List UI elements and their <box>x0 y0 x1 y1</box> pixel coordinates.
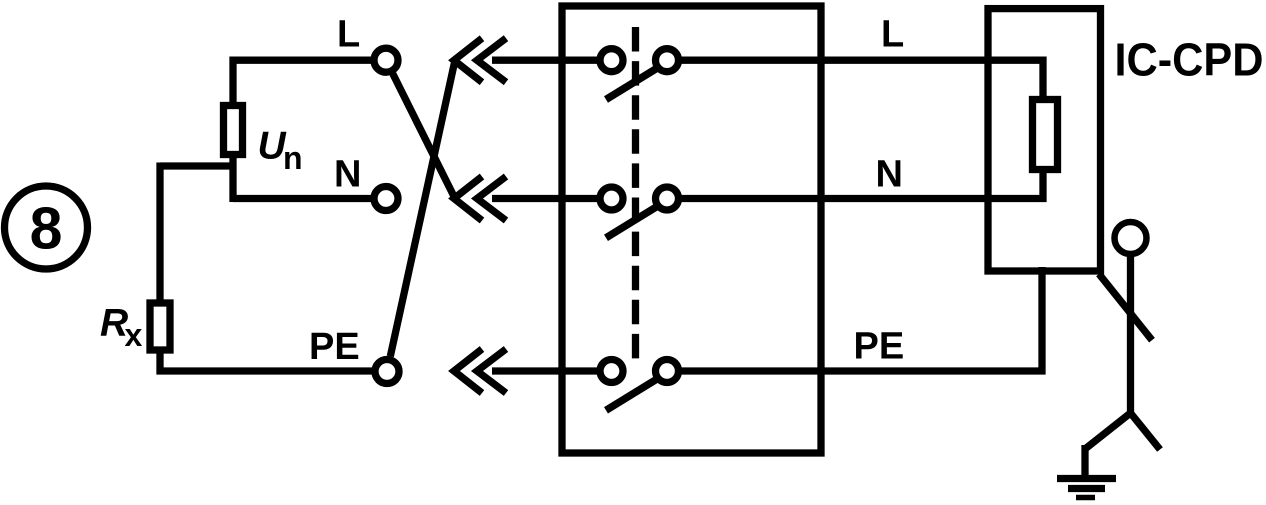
chevron plug PE-row first <box>454 349 482 393</box>
svg-text:x: x <box>125 317 143 353</box>
IC-CPD box <box>988 9 1101 271</box>
wire L top from source to terminal L <box>230 57 374 64</box>
person left leg <box>1085 413 1131 449</box>
terminal N <box>374 187 398 211</box>
chevron plug N-row second <box>477 177 506 221</box>
wire N-row to IC-CPD <box>680 170 1043 199</box>
ground bar 2 <box>1068 485 1105 492</box>
wire N from source to terminal N <box>233 195 373 202</box>
person body <box>1127 254 1134 413</box>
chevron plug PE-row second <box>477 349 506 393</box>
ground bar 3 <box>1076 495 1095 501</box>
svg-text:L: L <box>881 14 904 56</box>
resistor Un (source impedance) <box>224 106 243 155</box>
svg-text:8: 8 <box>30 196 63 262</box>
chevron plug N-row first <box>454 177 482 221</box>
wire PE bottom to terminal PE <box>157 367 375 374</box>
wire lever from L to N-row plug <box>393 74 455 199</box>
terminal L <box>374 48 398 72</box>
contact circle PE-row left <box>600 360 623 383</box>
node circled 8 (figure number) <box>5 186 88 269</box>
chevron plug L-row second <box>477 38 506 82</box>
ground bar 1 <box>1057 475 1116 482</box>
resistor Rx <box>150 303 170 350</box>
wire L-row left stub <box>492 57 599 64</box>
person head <box>1115 222 1147 254</box>
contact circle N-row left <box>600 187 623 210</box>
wire vertical source bottom <box>229 157 236 202</box>
switch blade N-row <box>606 207 657 238</box>
wire L-row to IC-CPD <box>680 60 1043 99</box>
chevron plug L-row first <box>454 38 482 82</box>
wire lever from PE to L-row plug <box>390 60 455 356</box>
wire PE-row left stub <box>492 367 599 374</box>
wire vertical below Rx <box>156 350 163 375</box>
svg-text:L: L <box>337 14 360 56</box>
svg-text:n: n <box>283 140 303 176</box>
wire branch to Rx <box>160 162 237 169</box>
wire N-row left stub <box>492 195 599 202</box>
svg-text:N: N <box>876 154 903 196</box>
person arm touching IC-CPD <box>1099 274 1152 340</box>
terminal PE <box>375 360 399 384</box>
contact circle PE-row right <box>656 360 679 383</box>
contact circle L-row right <box>656 49 679 72</box>
interface box (vehicle connector) <box>562 6 821 453</box>
contact circle L-row left <box>600 49 623 72</box>
contact circle N-row right <box>656 187 679 210</box>
wire PE-row to IC-CPD <box>680 267 1042 371</box>
resistor inside IC-CPD <box>1033 100 1058 170</box>
ground stem <box>1081 445 1088 475</box>
person right leg <box>1131 413 1161 450</box>
svg-text:PE: PE <box>854 326 905 368</box>
wire vertical down to Rx <box>156 163 163 304</box>
switch blade PE-row <box>606 379 657 410</box>
svg-text:N: N <box>334 154 361 196</box>
svg-text:IC-CPD: IC-CPD <box>1115 34 1264 86</box>
switch blade L-row <box>606 69 657 100</box>
wire vertical source top <box>229 57 236 103</box>
dashed linkage line <box>632 27 639 358</box>
svg-text:PE: PE <box>309 326 360 368</box>
